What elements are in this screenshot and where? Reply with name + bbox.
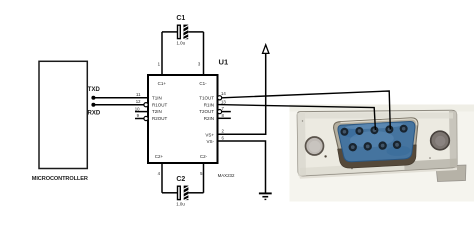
svg-text:12: 12 <box>136 99 141 104</box>
svg-text:U1: U1 <box>219 58 229 67</box>
inversion bubble pin 12 R1OUT <box>144 103 148 107</box>
d-sub blue insert <box>338 121 417 162</box>
pin 4 <box>385 125 393 133</box>
svg-text:T2IN: T2IN <box>152 109 162 114</box>
mounting hole right <box>431 131 450 150</box>
pin 7 <box>363 142 372 151</box>
pin 6 <box>348 143 357 152</box>
power arrow VCC <box>263 45 269 54</box>
svg-text:10: 10 <box>135 106 140 111</box>
flange plate <box>297 110 457 176</box>
junction dot TXD <box>91 96 95 100</box>
svg-text:C1: C1 <box>176 15 185 22</box>
svg-text:RXD: RXD <box>88 110 101 116</box>
svg-text:MAX232: MAX232 <box>218 173 235 178</box>
connector body side tab <box>436 165 466 182</box>
wire stub pin 9 R2OUT <box>135 118 144 120</box>
inversion bubble pin 9 R2OUT <box>144 116 148 120</box>
svg-text:T1IN: T1IN <box>152 95 162 100</box>
svg-text:13: 13 <box>221 99 226 104</box>
flange shading <box>297 113 306 176</box>
wire stub pin 8 R2IN <box>218 117 231 119</box>
svg-text:C2: C2 <box>176 176 185 183</box>
svg-text:1.0u: 1.0u <box>177 41 186 46</box>
svg-text:R2IN: R2IN <box>204 116 214 121</box>
flange shadow <box>299 168 457 179</box>
svg-text:11: 11 <box>136 92 141 97</box>
IC U1 MAX232 body <box>148 75 218 163</box>
svg-text:C1+: C1+ <box>158 81 167 86</box>
svg-text:T2OUT: T2OUT <box>199 109 214 114</box>
svg-text:R1IN: R1IN <box>204 102 214 107</box>
microcontroller block <box>32 61 88 182</box>
wire VS- pin 6 to ground <box>218 141 266 193</box>
wire pin 1 vertical <box>161 32 163 75</box>
svg-text:C1-: C1- <box>199 81 207 86</box>
wire R1IN pin 13 to DB9 <box>218 105 376 130</box>
pin 5 <box>399 124 407 132</box>
capacitor C1 <box>162 15 204 45</box>
d-sub shell bottom shadow <box>338 145 418 169</box>
svg-text:1.0u: 1.0u <box>176 201 185 206</box>
wire TXD to T1IN pin 11 <box>93 97 148 99</box>
wire pin 5 vertical <box>203 163 205 193</box>
svg-text:TXD: TXD <box>88 87 101 93</box>
svg-text:C2+: C2+ <box>155 154 164 159</box>
wire stub pin 7 T2OUT <box>222 111 231 113</box>
wire T1OUT pin 14 to DB9 <box>222 91 391 130</box>
pin 1 <box>340 128 348 136</box>
inversion bubble pin 14 T1OUT <box>218 96 222 100</box>
svg-text:T1OUT: T1OUT <box>199 95 214 100</box>
d-sub metal rim <box>333 118 420 166</box>
svg-text:14: 14 <box>221 91 226 96</box>
capacitor C2 <box>162 176 204 206</box>
svg-text:R1OUT: R1OUT <box>152 102 168 107</box>
svg-text:R2OUT: R2OUT <box>152 116 168 121</box>
pin 9 <box>393 140 402 149</box>
wire RXD to R1OUT pin 12 <box>93 104 144 106</box>
inversion bubble pin 7 T2OUT <box>218 110 222 114</box>
connector J1 DB9 female photo <box>290 105 474 202</box>
speck <box>324 155 326 157</box>
svg-text:VS-: VS- <box>206 139 214 144</box>
wire stub pin 10 T2IN <box>135 111 149 113</box>
pin 2 <box>355 127 363 135</box>
wire pin 3 vertical <box>203 32 205 75</box>
svg-text:MICROCONTROLLER: MICROCONTROLLER <box>32 176 88 182</box>
wire VS+ pin 2 to VCC <box>218 46 266 135</box>
svg-text:C2-: C2- <box>200 154 208 159</box>
ground <box>259 193 272 199</box>
wire pin 4 vertical <box>161 163 163 193</box>
svg-text:VS+: VS+ <box>205 133 214 138</box>
pin 8 <box>378 141 387 150</box>
junction dot RXD <box>91 103 95 107</box>
mounting hole left <box>306 137 324 155</box>
pin 3 <box>370 126 378 134</box>
photo background <box>290 105 474 202</box>
